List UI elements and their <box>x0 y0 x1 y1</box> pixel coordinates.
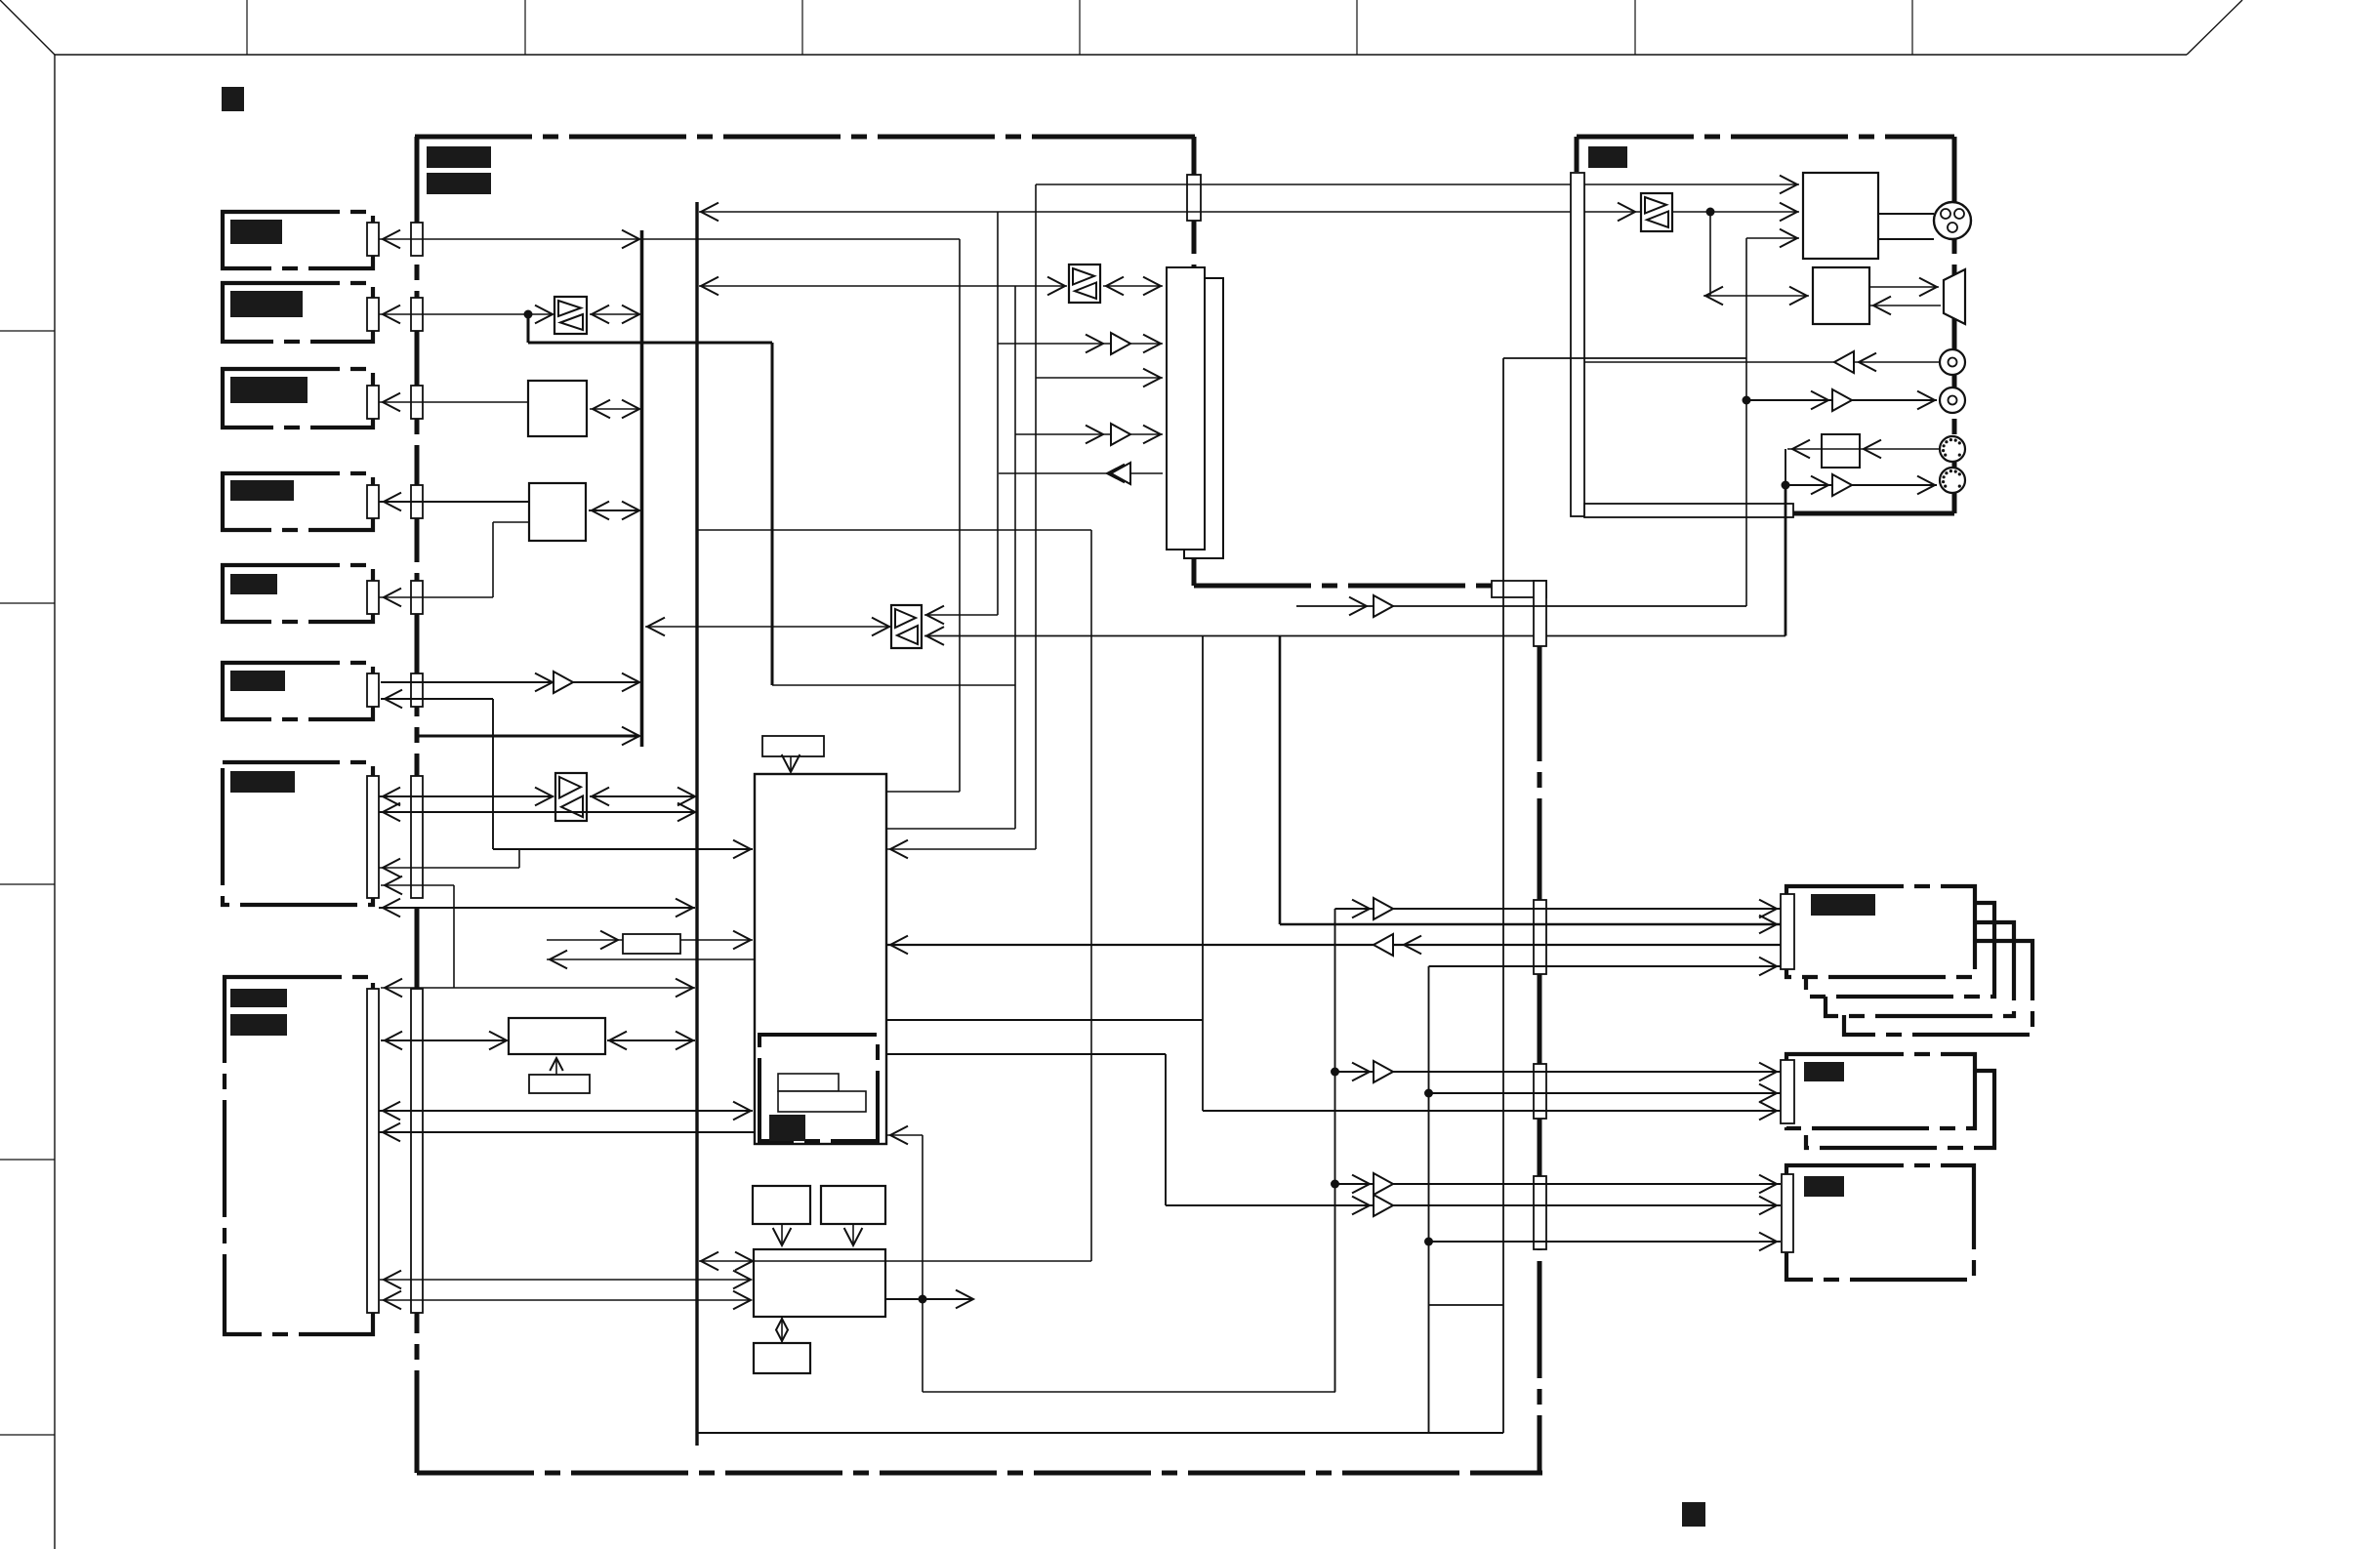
junction f1368b <box>1331 1180 1339 1189</box>
wire riser x465 <box>453 885 455 988</box>
amp A13 <box>1374 1195 1393 1216</box>
av jack C1 <box>1934 202 1971 239</box>
main border connector top <box>1187 175 1201 221</box>
main border connector 6 <box>411 673 423 707</box>
speaker unit B label <box>1804 1062 1844 1081</box>
wire R2 out <box>1869 286 1939 288</box>
fader F1 <box>1944 269 1965 324</box>
top fold tick 2 <box>524 0 526 55</box>
wire thick row351 <box>528 342 772 345</box>
wire row702 <box>772 684 1015 686</box>
wire unit3 row <box>379 401 528 403</box>
unit 1 connector <box>367 223 379 256</box>
jack unit border left stub <box>1575 137 1580 172</box>
left fold tick 1 <box>0 330 55 332</box>
main unit label 1 <box>427 146 491 168</box>
wire drop x1752 <box>1709 212 1711 296</box>
unit 4 connector <box>367 485 379 518</box>
cpu inner rect a <box>778 1074 839 1091</box>
wire row754 <box>417 735 639 738</box>
wire cpu row1163 <box>886 1134 923 1136</box>
main border corner solid br <box>1538 1425 1542 1473</box>
wire row1138 <box>379 1110 753 1112</box>
main unit border bottom <box>417 1471 1542 1476</box>
wire row217 <box>699 211 1799 213</box>
wire riser x1829a <box>1785 449 1786 485</box>
wire row352 <box>998 343 1163 345</box>
wire row387 <box>1036 377 1163 379</box>
main unit border right upper <box>1192 137 1197 269</box>
main unit border shelf <box>1194 584 1494 589</box>
source unit 6 label <box>230 671 285 691</box>
wire riser x1061 <box>1035 184 1037 849</box>
jack unit corner solid br <box>1952 469 1957 513</box>
wire cpu row870r <box>886 848 1036 850</box>
arrow b down <box>852 1224 854 1243</box>
amp A2b <box>1374 934 1393 956</box>
speaker unit C label <box>1804 1176 1844 1197</box>
main border connector 7 <box>411 776 423 898</box>
wire row889 <box>379 867 519 869</box>
sheet id mark 2 <box>1682 1502 1705 1527</box>
top fold tick 5 <box>1356 0 1358 55</box>
source unit box 1 <box>223 212 373 268</box>
top fold tick 7 <box>1911 0 1913 55</box>
main unit border top <box>415 135 1195 140</box>
wire spA row931 <box>1335 908 1782 910</box>
wire row1426 <box>923 1391 1335 1393</box>
main border corner solid tr <box>1142 135 1195 140</box>
wire row983 <box>547 958 755 960</box>
junction x1829 <box>1782 481 1790 490</box>
wire U6 to busB <box>607 1039 695 1041</box>
main border connector 4 <box>411 485 423 518</box>
feed line x1368 <box>1334 909 1336 1392</box>
amp A10 <box>1374 898 1393 919</box>
selector front rect <box>1167 267 1205 550</box>
sw block R2 <box>1813 267 1869 324</box>
source unit 8 label b <box>230 1014 287 1036</box>
mic jack C5 <box>1940 468 1965 493</box>
wire unit2 row <box>379 313 553 315</box>
unit 5 connector <box>367 581 379 614</box>
speaker unit A shadow 2 <box>1826 922 2014 1016</box>
wire row1332 <box>380 1299 751 1301</box>
amp A1 <box>554 672 573 693</box>
wire buffer1 to bus <box>590 313 639 315</box>
cpu inner label <box>769 1115 805 1141</box>
jack unit border bottom <box>1793 511 1954 516</box>
mic block R3 <box>1822 434 1860 468</box>
elbow connector h <box>1492 581 1546 597</box>
buffer U6 <box>1069 265 1100 303</box>
wire row244 <box>1746 237 1799 239</box>
speaker unit A box <box>1786 886 1975 977</box>
main border connector 5 <box>411 581 423 614</box>
elbow connector v <box>1534 581 1546 646</box>
wire row870 into cpu <box>493 848 753 850</box>
wire unit6 row in <box>381 698 493 700</box>
source unit 3 label <box>230 377 308 403</box>
power section top edge <box>1503 357 1746 359</box>
junction x1789 <box>1743 396 1751 405</box>
main cpu box <box>755 774 886 1144</box>
wire row1066 <box>381 1039 507 1041</box>
wire cpu row1080 <box>886 1053 1166 1055</box>
sheet id mark <box>222 87 244 111</box>
wire row445 <box>1015 433 1163 435</box>
junction x945 <box>919 1295 927 1304</box>
source unit box 2 <box>223 283 373 342</box>
eeprom arrow <box>555 1058 557 1075</box>
amp A8 <box>1832 474 1852 496</box>
speaker unit A shadow 3 <box>1844 941 2032 1035</box>
source unit 5 label <box>230 574 277 594</box>
source unit 2 label <box>230 291 303 317</box>
cpu inner dash box <box>759 1035 878 1141</box>
wire spB row1120 <box>1429 1092 1782 1094</box>
wire spA row990 <box>1429 965 1782 967</box>
top fold tick 1 <box>246 0 248 55</box>
main border connector 2 <box>411 298 423 331</box>
display block b <box>821 1186 885 1224</box>
wire U3 to bus <box>589 510 639 511</box>
unit 6 connector <box>367 673 379 707</box>
main unit border right mid <box>1192 547 1197 586</box>
main border connector 3 <box>411 386 423 419</box>
main unit border left <box>415 137 420 1473</box>
wire spC row1235 <box>1166 1204 1781 1206</box>
unit 2 connector <box>367 298 379 331</box>
source unit box 7 <box>223 762 373 905</box>
border connector sp B <box>1534 1064 1546 1119</box>
wire spA row968 <box>886 944 1781 946</box>
wire spC row1272 <box>1429 1241 1782 1243</box>
speaker unit B connector <box>1781 1060 1794 1123</box>
wire unit1 to dsp <box>642 238 960 240</box>
amp A7 <box>1832 389 1852 411</box>
power section left edge <box>1502 358 1504 1433</box>
wire U5 bottom east <box>924 635 1785 637</box>
wire row1311 <box>380 1279 751 1281</box>
wire cpu row1045 <box>886 1019 1203 1021</box>
speaker unit C connector <box>1782 1174 1793 1252</box>
left fold tick 2 <box>0 602 55 604</box>
cpu inner rect b <box>778 1091 866 1112</box>
unit 7 connector <box>367 776 379 898</box>
border connector sp A <box>1534 900 1546 974</box>
wire row963 <box>547 939 753 941</box>
source unit box 5 <box>223 565 373 622</box>
amp A6 <box>1834 351 1854 373</box>
wire row410 <box>1746 399 1937 401</box>
source unit box 3 <box>223 369 373 428</box>
amp A12 <box>1374 1173 1393 1195</box>
wire riser x505 <box>492 699 494 849</box>
wire riser x791 <box>771 343 774 685</box>
jack unit connector bar <box>1584 504 1793 517</box>
wire row621 <box>1296 605 1746 607</box>
video block R1 <box>1803 173 1878 259</box>
wire riser x1829b <box>1785 485 1787 636</box>
wire row642 <box>645 626 891 628</box>
wire U6 selector <box>1103 285 1163 287</box>
wire unit5 row <box>379 596 493 598</box>
wire unit1 row <box>379 238 639 240</box>
remote block <box>754 1343 810 1373</box>
block U2 <box>528 381 587 436</box>
buffer U5 <box>891 605 922 648</box>
speaker unit B shadow 1 <box>1806 1071 1994 1148</box>
selector back rect <box>1184 278 1223 558</box>
control out row1331 <box>885 1298 973 1300</box>
jack unit border right <box>1952 137 1957 513</box>
left fold tick 4 <box>0 1159 55 1161</box>
wire row293 <box>699 285 1067 287</box>
display block a <box>753 1186 810 1224</box>
wire row543 <box>697 529 1091 531</box>
wire row497 <box>1785 484 1937 486</box>
speaker unit B box <box>1786 1054 1975 1128</box>
source unit 7 label <box>230 771 295 793</box>
wire riser x532 <box>518 849 520 868</box>
jack unit corner solid tr <box>1904 135 1954 140</box>
buffer U4 <box>555 773 587 821</box>
wire drop junction <box>527 314 530 343</box>
source unit box 6 <box>223 663 373 719</box>
eeprom block <box>529 1075 590 1093</box>
wire spA row947 <box>1280 923 1781 926</box>
wire riser x1118 <box>1090 530 1092 1261</box>
top fold tick 4 <box>1079 0 1081 55</box>
left fold tick 3 <box>0 883 55 885</box>
sheet border frame <box>0 0 55 55</box>
amp A9 <box>1374 595 1393 617</box>
xtal arrow <box>790 756 792 770</box>
wire U2 to bus <box>590 408 639 410</box>
wire riser x1022 <box>997 212 999 615</box>
wire U4 east <box>590 795 695 797</box>
block U3 <box>529 483 586 541</box>
wire R2 in <box>1869 305 1941 306</box>
wire unit6 row out <box>381 681 638 683</box>
wire U5 top east <box>924 614 998 616</box>
dsp section border left <box>695 202 698 1446</box>
speaker unit C box <box>1786 1165 1974 1280</box>
sysram block <box>509 1018 605 1054</box>
control updown <box>781 1317 783 1343</box>
speaker unit A connector <box>1781 894 1794 969</box>
clock block <box>623 934 680 954</box>
amp A5 <box>1111 463 1130 484</box>
buffer U7 <box>1641 193 1672 231</box>
speaker unit A shadow 1 <box>1806 903 1994 997</box>
wire unit5 riser <box>492 522 494 597</box>
xtal block <box>762 736 824 756</box>
junction f1368a <box>1331 1068 1339 1077</box>
wire spB row1098 <box>1335 1071 1782 1073</box>
junction row217 <box>1706 208 1715 217</box>
wire buffer U4 row <box>379 795 554 797</box>
source unit box 8 <box>225 977 373 1334</box>
wire row371 <box>1584 361 1939 363</box>
amp A4 <box>1111 424 1130 445</box>
source unit box 4 <box>223 473 373 530</box>
wire riser x945 <box>922 1135 923 1392</box>
main border connector 1 <box>411 223 423 256</box>
top fold tick 3 <box>801 0 803 55</box>
junction f1464a <box>1424 1089 1433 1098</box>
main border corner solid bl <box>415 1430 420 1473</box>
source unit 4 label <box>230 480 294 501</box>
wire riser x1311 <box>1279 636 1282 925</box>
wire cpu row811 riser <box>959 239 961 792</box>
amp A11 <box>1374 1061 1393 1082</box>
buffer U1 <box>554 297 587 334</box>
wire row303 <box>1703 295 1809 297</box>
source unit 8 label a <box>230 989 287 1007</box>
junction unit2 <box>524 310 533 319</box>
arrow a down <box>781 1224 783 1243</box>
wire unit4 row <box>379 501 529 503</box>
wire row1012 <box>381 987 695 989</box>
wire spB row1138 <box>1203 1110 1781 1112</box>
wire row1295 <box>699 1260 1091 1262</box>
main border corner solid tl <box>415 135 469 140</box>
wire cpu row849 <box>886 828 1015 830</box>
main unit border right lower <box>1538 644 1542 1473</box>
main unit label 2 <box>427 173 491 194</box>
wire R1 C1 a <box>1878 213 1934 215</box>
wire riser x1194 <box>1165 1054 1167 1205</box>
wire R1 C1 b <box>1878 238 1934 240</box>
wire row189 <box>1036 183 1799 185</box>
feed line x1464 <box>1428 966 1430 1433</box>
border connector sp C <box>1534 1176 1546 1249</box>
rec jack C2 <box>1940 349 1965 375</box>
source unit 1 label <box>230 220 282 244</box>
jack unit border top <box>1577 135 1954 140</box>
left fold tick 5 <box>0 1434 55 1436</box>
top fold tick 6 <box>1634 0 1636 55</box>
wire row1160 <box>379 1131 755 1133</box>
wire riser x983 <box>959 239 961 792</box>
jack unit label <box>1588 146 1627 168</box>
wire row832 to bus <box>379 811 695 813</box>
mic jack C4 <box>1940 436 1965 462</box>
wire row930 <box>379 907 695 909</box>
wire row485 <box>999 472 1163 474</box>
control box <box>754 1249 885 1317</box>
power section bottom edge <box>1429 1304 1503 1306</box>
wire spC row1213 <box>1335 1183 1782 1185</box>
wire riser x1789 <box>1745 238 1747 606</box>
wire riser x1040 <box>1014 286 1016 829</box>
speaker unit A label <box>1811 894 1875 916</box>
dsp section border bottom <box>697 1432 1503 1434</box>
amp A3 <box>1111 333 1130 354</box>
junction f1464b <box>1424 1238 1433 1246</box>
jack unit connector column <box>1571 173 1584 516</box>
main border connector 8 <box>411 989 423 1313</box>
wire dsp east row811 <box>886 791 960 793</box>
unit 3 connector <box>367 386 379 419</box>
play jack C3 <box>1940 387 1965 413</box>
wire row907 <box>381 884 454 886</box>
dsp input bus line <box>640 230 644 747</box>
unit 8 connector <box>367 989 379 1313</box>
wire row460 <box>1787 448 1939 450</box>
wire riser x1232 <box>1202 636 1204 1112</box>
